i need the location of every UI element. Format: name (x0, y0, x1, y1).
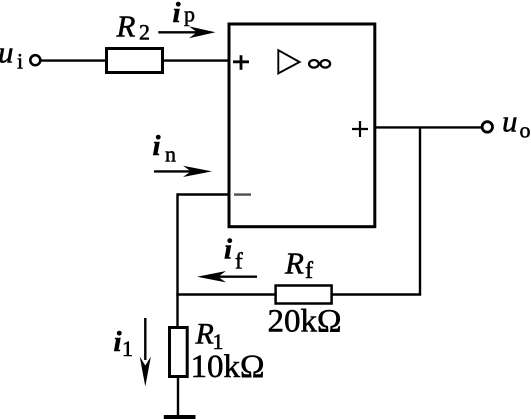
wire right vertical feedback branch (419, 127, 421, 294)
wire R1 to ground (177, 376, 179, 416)
resistor Rf (276, 286, 332, 304)
wire feedback left (node to Rf) (176, 293, 276, 295)
svg-text:2: 2 (139, 20, 150, 45)
svg-text:u: u (0, 35, 14, 70)
svg-text:o: o (520, 118, 531, 143)
op-amp + input sign (233, 55, 249, 70)
op-amp - input sign (234, 193, 251, 195)
svg-text:f: f (305, 258, 313, 284)
resistor R1 (170, 328, 188, 377)
op-amp output + sign (352, 121, 368, 137)
output wire (375, 126, 481, 128)
svg-text:f: f (235, 249, 243, 274)
svg-text:i: i (153, 130, 161, 162)
svg-text:10kΩ: 10kΩ (191, 349, 265, 385)
svg-text:R: R (116, 9, 136, 44)
op-amp infinity gain symbol (309, 60, 330, 68)
wire inverting input (178, 193, 230, 195)
resistor R2 (107, 49, 163, 73)
wire left vertical (inverting node down to R1) (176, 193, 178, 327)
svg-text:i: i (224, 234, 232, 266)
wire ui to R2 (42, 59, 109, 61)
svg-text:1: 1 (122, 336, 133, 361)
svg-text:u: u (502, 104, 518, 139)
svg-text:20kΩ: 20kΩ (268, 304, 342, 340)
ground (164, 415, 196, 419)
svg-text:R: R (284, 245, 304, 280)
output terminal circle (482, 122, 492, 132)
op-amp triangle symbol (278, 50, 299, 73)
svg-text:i: i (17, 49, 23, 74)
current in arrow (154, 166, 212, 177)
svg-text:R: R (195, 317, 214, 350)
svg-text:p: p (184, 2, 195, 27)
op-amp U1 box (229, 24, 375, 227)
wire feedback right (Rf to vertical) (332, 293, 422, 295)
wire R2 to op-amp + input (162, 59, 229, 61)
svg-text:i: i (114, 326, 122, 358)
current if arrow (197, 271, 257, 282)
input terminal circle (30, 55, 40, 65)
svg-text:i: i (173, 0, 181, 29)
current ip arrow (158, 26, 215, 38)
svg-text:n: n (165, 142, 176, 167)
current i1 arrow (140, 318, 151, 387)
